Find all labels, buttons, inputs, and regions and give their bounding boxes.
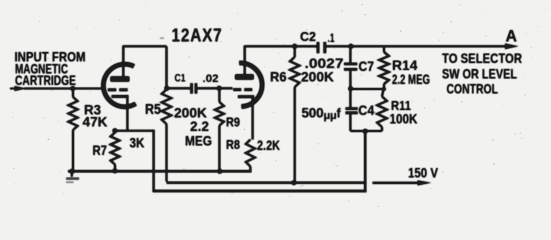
resistor R3 [68, 89, 77, 172]
label R3 47K [83, 101, 108, 129]
capacitor C1 [167, 83, 233, 93]
label TO SELECTOR SW OR LEVEL CONTROL [442, 50, 522, 96]
svg-text:100K: 100K [390, 112, 418, 127]
svg-text:R9: R9 [226, 115, 240, 130]
svg-text:150 V: 150 V [408, 164, 439, 180]
label R11 100K [390, 98, 418, 126]
svg-text:R14: R14 [392, 58, 418, 73]
tube V1b grid dashes [233, 88, 252, 91]
ground symbol [66, 171, 79, 182]
resistor R11 [377, 89, 387, 131]
capacitor C2 [317, 42, 327, 53]
tube V1a grid dashes [108, 88, 128, 91]
resistor R14 [379, 46, 389, 89]
svg-text:2.2 MEG: 2.2 MEG [392, 72, 430, 87]
resistor R6 [290, 46, 300, 182]
svg-text:CONTROL: CONTROL [447, 80, 499, 96]
wire V1a plate to R5 node [123, 46, 166, 88]
svg-text:C7: C7 [359, 58, 375, 74]
svg-text:R7: R7 [93, 142, 108, 158]
svg-text:R6: R6 [270, 69, 287, 85]
label .0027 (C7) [305, 55, 344, 71]
svg-text:12AX7: 12AX7 [172, 24, 223, 45]
label C1 .02 [175, 72, 219, 85]
svg-text:.02: .02 [203, 73, 219, 85]
node C1/R9 junction [217, 86, 222, 91]
wire 150V rail [167, 180, 432, 185]
wire feedback rail [154, 190, 367, 192]
node R14/R11 junction [382, 87, 386, 91]
wire mid EQ junction [351, 88, 384, 90]
ground bus [68, 170, 252, 173]
svg-text:47K: 47K [83, 114, 108, 130]
svg-text:C2: C2 [300, 29, 316, 44]
scan artifact tick near corner [160, 37, 164, 39]
tube V1b plate [235, 46, 254, 80]
node ground/R7 junction [112, 168, 117, 173]
tube V1a cathode [112, 96, 129, 131]
resistor R7 [111, 133, 120, 172]
node 150V/R6 junction [291, 180, 296, 185]
svg-text:.0027: .0027 [305, 55, 344, 71]
resistor R8 [246, 140, 255, 172]
node feedback tap junction [363, 129, 368, 134]
output arrow A [505, 43, 519, 49]
capacitor C7 [344, 46, 357, 89]
svg-text:CARTRIDGE: CARTRIDGE [15, 72, 76, 88]
node input/R3 junction [70, 86, 75, 91]
resistor R5 [162, 90, 172, 182]
resistor R9 [215, 88, 224, 171]
input signal arrow [10, 86, 26, 91]
wire feedback down lead [364, 131, 366, 192]
capacitor C4 [346, 89, 358, 131]
svg-text:3K: 3K [130, 134, 145, 150]
tube V1b envelope (12AX7 section 2) [239, 63, 262, 107]
node C7/C4/R-junction [348, 86, 353, 91]
tube V1b cathode [238, 97, 254, 140]
node ground/R9 junction [217, 169, 222, 174]
wire V1b plate to output [245, 45, 507, 47]
svg-text:R8: R8 [226, 137, 240, 152]
tube V1a plate [110, 46, 129, 82]
svg-text:R5: R5 [145, 102, 161, 118]
label C2 .1 [300, 29, 335, 45]
node C7 top junction [348, 44, 353, 49]
input label text [15, 48, 86, 88]
svg-text:C1: C1 [175, 72, 186, 84]
wire input to tube V1 grid [24, 87, 105, 89]
svg-text:MEG: MEG [185, 132, 212, 148]
node plate/R6 junction [292, 44, 297, 49]
node ground/R3 junction [69, 169, 74, 174]
svg-text:2.2K: 2.2K [257, 138, 280, 153]
wire C4/R11 bottom junction [350, 130, 382, 132]
svg-text:SW OR LEVEL: SW OR LEVEL [442, 65, 517, 81]
tube V1a envelope (12AX7 section 1) [103, 64, 135, 107]
label 2.2 MEG (R9 value) [185, 118, 212, 149]
svg-text:TO SELECTOR: TO SELECTOR [442, 50, 522, 66]
svg-text:.1: .1 [328, 31, 335, 45]
svg-text:C4: C4 [358, 102, 374, 118]
node plate/R5/C1 junction [164, 86, 169, 91]
label R14 2.2 MEG [392, 58, 430, 87]
svg-text:A: A [506, 28, 518, 46]
wire cathode feedback tap [115, 130, 154, 193]
node cathode V1a junction [112, 128, 117, 133]
